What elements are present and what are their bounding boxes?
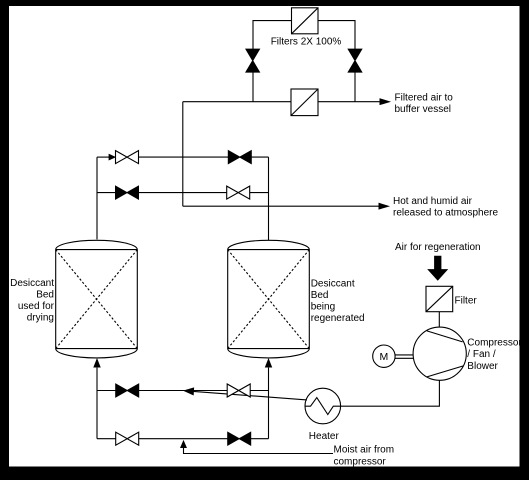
- svg-text:/ Fan /: / Fan /: [467, 349, 496, 360]
- valve V7 closed (row3 left): [116, 384, 139, 397]
- heater H1: [305, 388, 341, 424]
- svg-text:Heater: Heater: [309, 431, 340, 442]
- block arrow down (regeneration inlet): [428, 256, 447, 280]
- arrow into vessel T2 bottom: [266, 359, 272, 367]
- wire row1 right: [251, 156, 268, 158]
- wire F3 to compressor: [438, 312, 440, 328]
- wire vessel1 bottom drop: [96, 368, 98, 439]
- valve V2 closed (top right, vertical): [348, 49, 362, 72]
- valve V1 closed (top left, vertical): [246, 49, 260, 72]
- svg-text:regenerated: regenerated: [311, 313, 365, 324]
- arrow into vessel T1 bottom: [94, 359, 100, 367]
- wire row2 middle: [139, 192, 227, 194]
- vessel T2 desiccant bed regenerated: [228, 240, 310, 358]
- wire vertical drop from outlet line: [182, 102, 184, 207]
- valve V8 open (row3 right): [227, 384, 250, 397]
- svg-text:compressor: compressor: [334, 456, 387, 467]
- svg-text:Hot and humid air: Hot and humid air: [393, 196, 473, 207]
- svg-text:Moist air from: Moist air from: [334, 445, 395, 456]
- arrow to buffer vessel: [380, 99, 389, 105]
- motor M circle: [373, 345, 395, 367]
- wire row1 left segment: [97, 156, 110, 158]
- svg-text:Compressor: Compressor: [467, 337, 522, 348]
- wire heater to compressor: [341, 380, 440, 406]
- wire moist air inlet: [184, 448, 334, 454]
- svg-text:Air for regeneration: Air for regeneration: [395, 242, 481, 253]
- svg-text:Bed: Bed: [311, 290, 329, 301]
- wire top loop right: [318, 21, 355, 49]
- svg-text:drying: drying: [27, 313, 54, 324]
- wire left riser (vessel1 top): [96, 157, 98, 239]
- wire row2 right: [250, 192, 269, 194]
- filter F2 (duty): [291, 89, 318, 116]
- svg-text:used for: used for: [18, 301, 55, 312]
- wire row4 right: [251, 438, 269, 440]
- wire filtered outlet line: [183, 101, 381, 103]
- svg-text:buffer vessel: buffer vessel: [395, 104, 452, 115]
- vessel T1 desiccant bed drying: [56, 240, 138, 358]
- svg-text:Bed: Bed: [36, 290, 54, 301]
- compressor U1 circle: [413, 327, 466, 380]
- svg-text:M: M: [380, 351, 389, 363]
- wire row3 right: [250, 390, 268, 392]
- wire row4 left: [97, 438, 116, 440]
- svg-text:Desiccant: Desiccant: [10, 278, 54, 289]
- wire row3 middle: [139, 390, 228, 392]
- wire V1 to outlet line: [252, 72, 254, 102]
- wire row4 middle: [139, 438, 228, 440]
- wire top loop left: [253, 21, 292, 49]
- svg-text:released to atmosphere: released to atmosphere: [393, 208, 499, 219]
- wire heater to row3 diagonal: [193, 391, 307, 400]
- wire row3 left: [97, 390, 116, 392]
- arrow heater into row3: [184, 388, 193, 395]
- wire V2 to outlet line: [354, 72, 356, 102]
- svg-text:Filtered air to: Filtered air to: [395, 92, 454, 103]
- arrow into valve V3: [109, 155, 115, 160]
- svg-text:Filter: Filter: [455, 296, 478, 307]
- svg-text:being: being: [311, 302, 335, 313]
- valve V6 open (row2 right): [227, 186, 250, 199]
- filter F1 (standby): [292, 8, 319, 34]
- valve V9 open (row4 left): [116, 432, 139, 445]
- wire row1 middle: [139, 156, 229, 158]
- wire atmosphere line: [183, 205, 380, 207]
- svg-text:Filters 2X 100%: Filters 2X 100%: [271, 37, 342, 48]
- valve V10 closed (row4 right): [228, 432, 251, 445]
- wire vessel2 bottom drop: [268, 368, 270, 439]
- valve V3 open (row1 left): [116, 151, 139, 164]
- valve V4 closed (row1 right): [228, 151, 251, 164]
- arrow to atmosphere: [379, 203, 388, 209]
- svg-text:Desiccant: Desiccant: [311, 279, 355, 290]
- valve V5 closed (row2 left): [116, 186, 139, 199]
- svg-text:Blower: Blower: [467, 361, 498, 372]
- arrow moist air into row4: [181, 441, 186, 447]
- filter F3 regeneration: [426, 286, 453, 311]
- wire motor shaft double line: [395, 355, 413, 358]
- wire right riser (vessel2 top): [268, 157, 270, 240]
- wire row2 left: [97, 192, 116, 194]
